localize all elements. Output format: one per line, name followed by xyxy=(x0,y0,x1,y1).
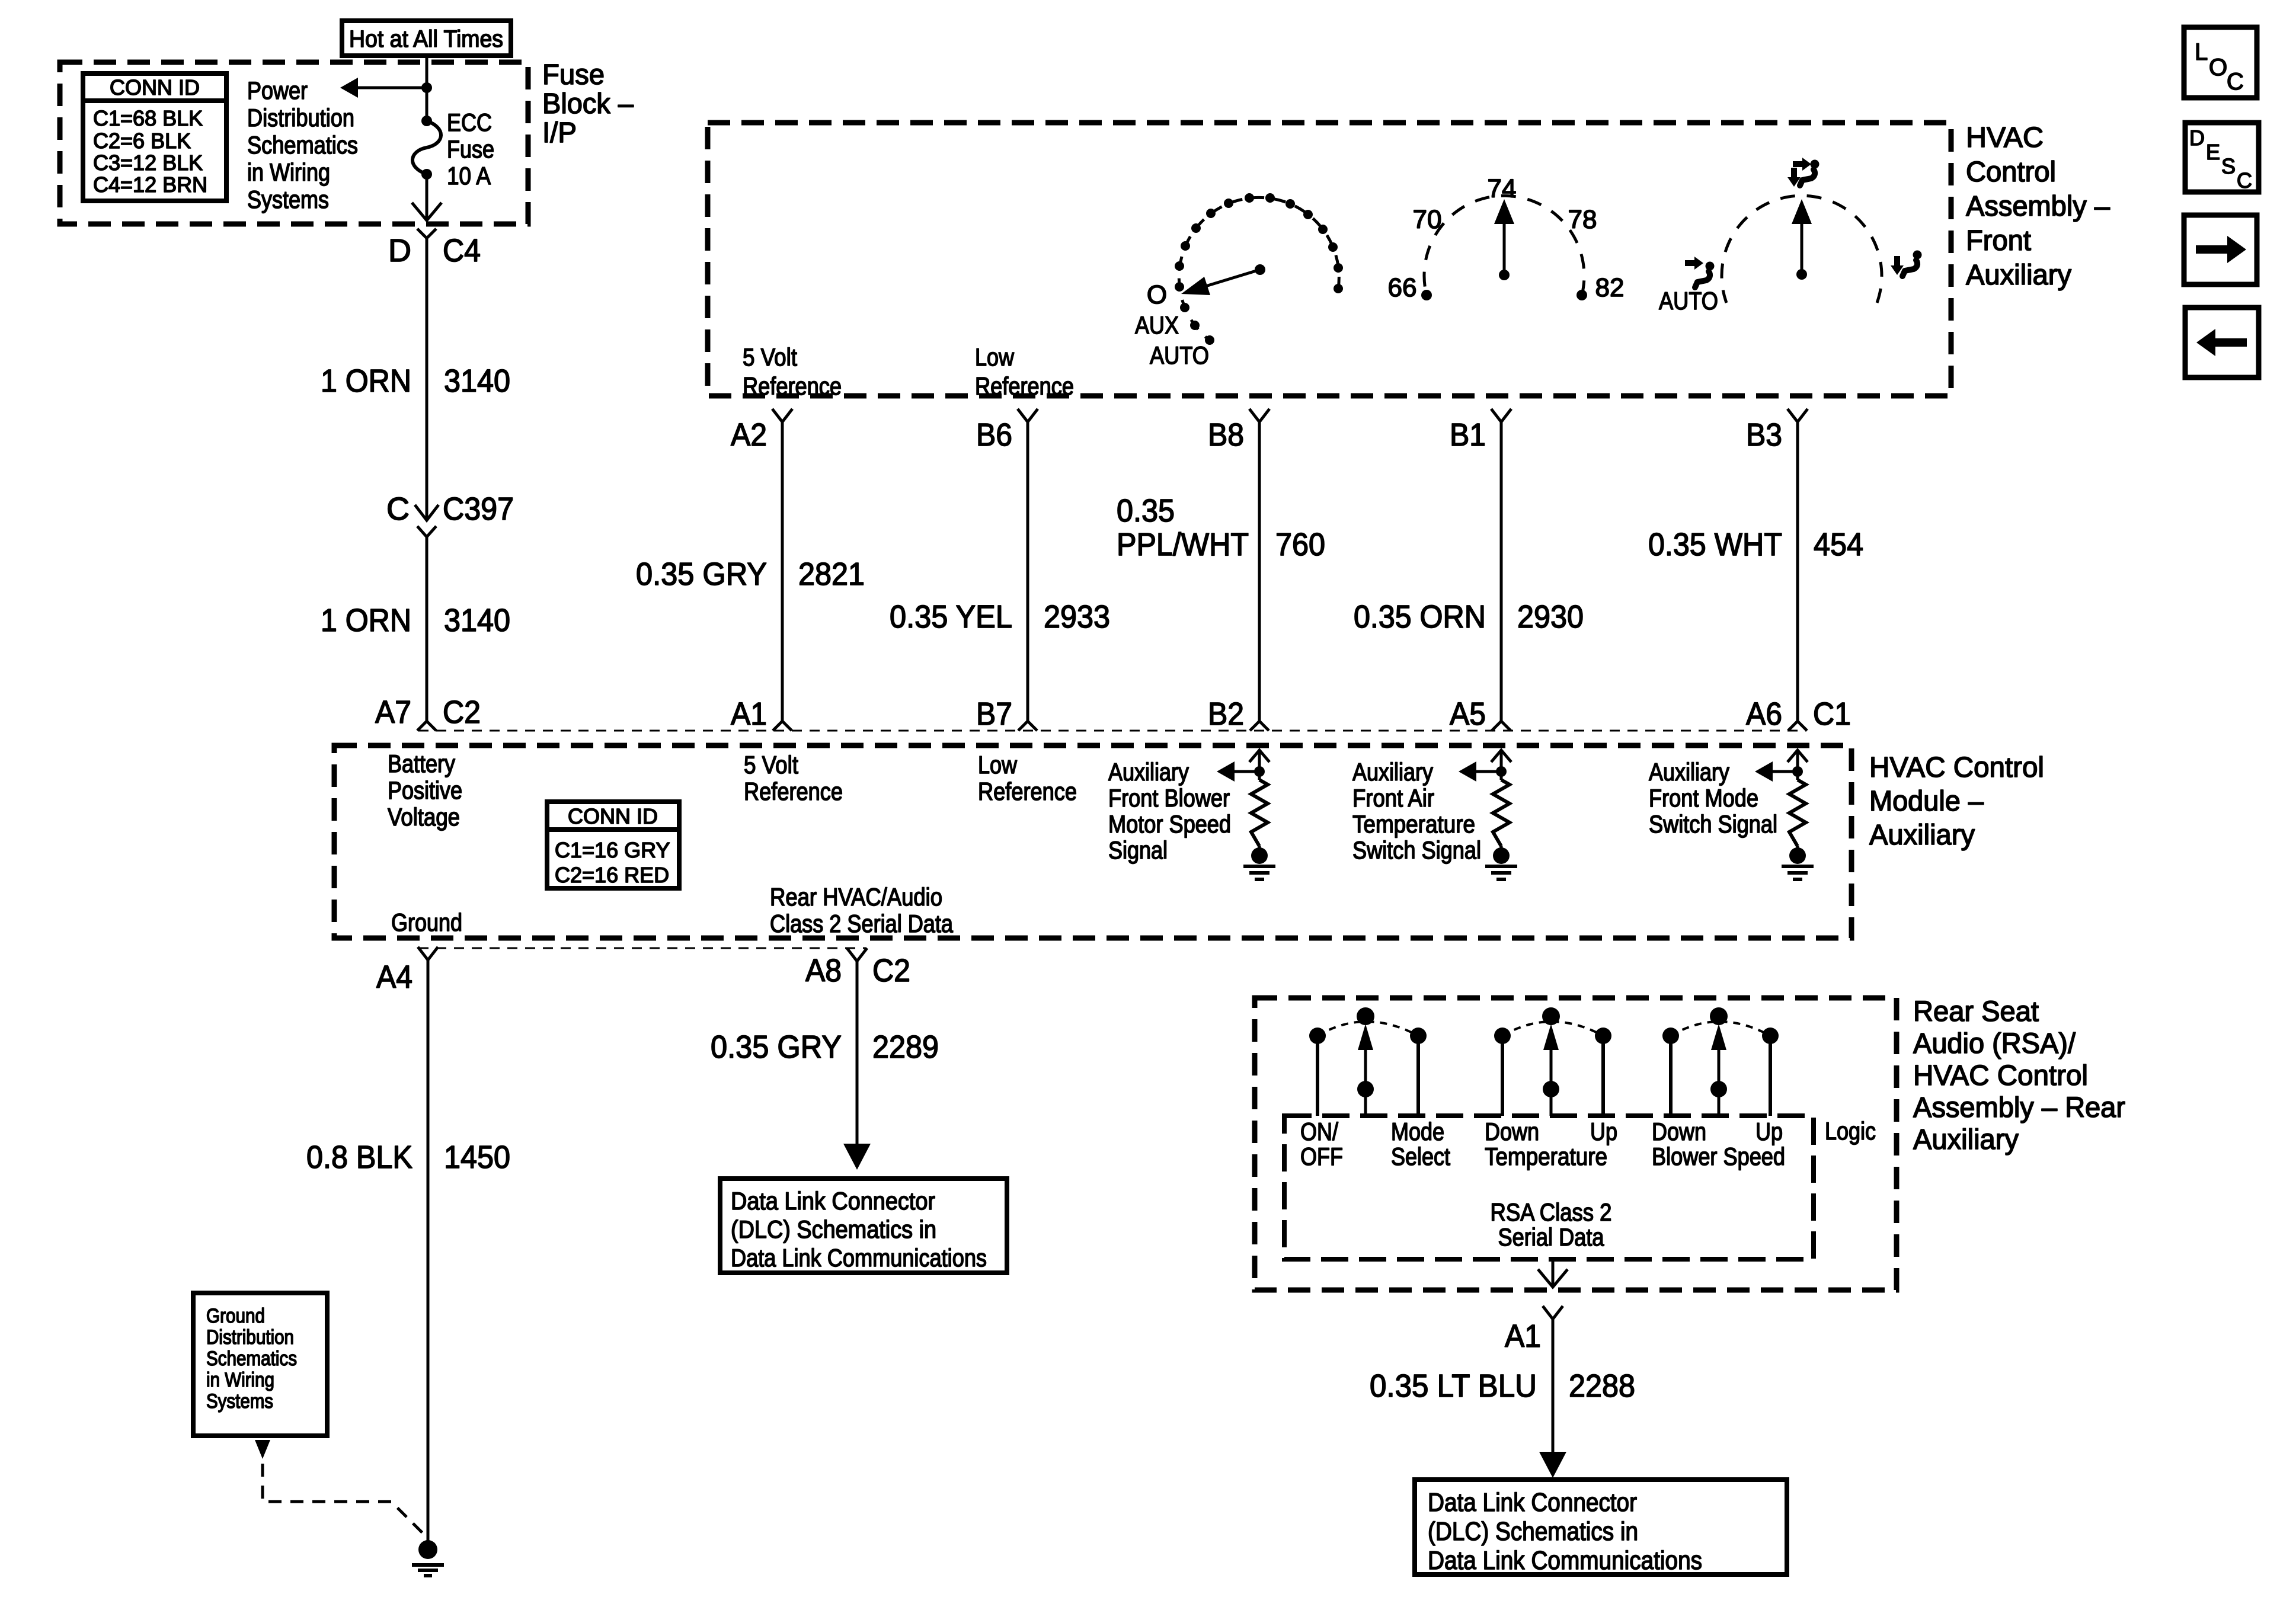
svg-text:Up: Up xyxy=(1590,1118,1617,1145)
svg-text:C4=12 BRN: C4=12 BRN xyxy=(93,172,207,197)
svg-text:Audio (RSA)/: Audio (RSA)/ xyxy=(1913,1028,2076,1060)
icon: mode seat with down airflow (right of dial 3) xyxy=(1891,251,1922,277)
svg-text:Up: Up xyxy=(1755,1118,1783,1145)
thin dashed connector line (A4-A8) xyxy=(418,948,866,949)
label box: Hot at All Times xyxy=(342,21,511,56)
label: Mode Select xyxy=(1391,1118,1450,1170)
label: AUX xyxy=(1135,311,1179,339)
svg-text:0.35 ORN: 0.35 ORN xyxy=(1354,599,1486,635)
svg-text:Voltage: Voltage xyxy=(388,803,460,831)
dial: auxiliary front temperature selector xyxy=(1421,196,1587,300)
svg-text:Schematics: Schematics xyxy=(206,1347,297,1370)
switch: ON/OFF - Mode Select travel arc xyxy=(1318,1022,1418,1036)
svg-text:5 Volt: 5 Volt xyxy=(743,343,797,371)
svg-text:78: 78 xyxy=(1568,205,1597,234)
label: Temperature xyxy=(1485,1142,1607,1170)
svg-text:B3: B3 xyxy=(1746,417,1782,453)
node: resistor to ground (Air) xyxy=(1493,846,1510,864)
label box: Data Link Connector (DLC) 2 xyxy=(1415,1480,1787,1575)
svg-text:Auxiliary: Auxiliary xyxy=(1352,758,1433,786)
label: Auxiliary Front Mode Switch Signal xyxy=(1649,758,1777,838)
svg-text:ECC: ECC xyxy=(447,108,492,136)
arrow: internal logic (Air) xyxy=(1459,761,1501,782)
node: junction (Blower) xyxy=(1254,766,1265,777)
connector pin A6 fork (module) xyxy=(1788,721,1807,731)
svg-text:Motor Speed: Motor Speed xyxy=(1108,810,1231,838)
wire: fuse output xyxy=(426,174,428,220)
ground (internal Mode) xyxy=(1782,866,1814,879)
svg-text:B1: B1 xyxy=(1450,417,1486,453)
label: 5 Volt Reference (module) xyxy=(744,751,843,805)
svg-text:Ground: Ground xyxy=(391,908,462,936)
label: AUTO (dial 1) xyxy=(1150,341,1209,369)
label: Ground (module) xyxy=(391,908,462,936)
svg-text:C1=68 BLK: C1=68 BLK xyxy=(93,106,203,130)
pin label C1 (module right) xyxy=(1813,696,1851,732)
svg-text:Reference: Reference xyxy=(743,372,842,400)
svg-text:Reference: Reference xyxy=(978,777,1077,805)
svg-text:Positive: Positive xyxy=(388,776,462,804)
svg-text:B2: B2 xyxy=(1208,696,1244,732)
node: junction (Air) xyxy=(1496,766,1507,777)
wire: 0.8 BLK 1450 to ground xyxy=(427,960,430,1541)
label: Logic xyxy=(1825,1117,1876,1145)
svg-text:Switch Signal: Switch Signal xyxy=(1352,836,1481,864)
svg-text:2933: 2933 xyxy=(1044,599,1110,635)
svg-text:E: E xyxy=(2206,140,2220,164)
svg-text:Class 2 Serial Data: Class 2 Serial Data xyxy=(770,910,954,937)
svg-text:PPL/WHT: PPL/WHT xyxy=(1117,527,1249,562)
svg-text:A1: A1 xyxy=(731,696,767,732)
connector pin B2 fork (module) xyxy=(1250,721,1269,731)
svg-text:Auxiliary: Auxiliary xyxy=(1108,758,1189,786)
svg-text:C1: C1 xyxy=(1813,696,1851,732)
connector A1: out-arrow xyxy=(1538,1269,1568,1287)
connector pin A1 fork (module) xyxy=(773,721,792,731)
pointer: ground distribution reference xyxy=(255,1440,270,1459)
svg-text:C4: C4 xyxy=(443,233,481,268)
label: Down (blower) xyxy=(1652,1118,1706,1145)
svg-text:Reference: Reference xyxy=(744,777,843,805)
wire label: 0.35 ORN 2930 xyxy=(1354,599,1584,635)
label: 1 ORN 3140 (lower) xyxy=(321,603,510,638)
svg-text:A1: A1 xyxy=(1505,1318,1541,1354)
arrow into DLC reference box 1 xyxy=(843,1144,871,1170)
connector C397 pin C xyxy=(415,505,439,537)
label: 1 ORN 3140 xyxy=(321,363,510,399)
svg-text:3140: 3140 xyxy=(444,603,510,638)
svg-text:5 Volt: 5 Volt xyxy=(744,751,798,779)
svg-text:CONN ID: CONN ID xyxy=(568,804,658,828)
arrow: to Power Distribution Schematics xyxy=(340,78,427,98)
pin label A1 xyxy=(1505,1318,1541,1354)
svg-text:2289: 2289 xyxy=(872,1029,939,1065)
HVAC control module dashed box xyxy=(334,745,1851,938)
svg-text:Auxiliary: Auxiliary xyxy=(1913,1124,2019,1156)
label: Battery Positive Voltage xyxy=(388,750,462,831)
label: ON/ OFF xyxy=(1300,1118,1343,1170)
label: Auxiliary Front Air Temperature Switch Signal xyxy=(1352,758,1481,864)
arrow: internal logic (Blower) xyxy=(1217,761,1259,782)
svg-text:Power: Power xyxy=(247,76,308,104)
svg-text:454: 454 xyxy=(1814,527,1863,562)
svg-text:C397: C397 xyxy=(443,491,514,527)
svg-text:3140: 3140 xyxy=(444,363,510,399)
svg-text:Low: Low xyxy=(975,343,1015,371)
svg-text:Data Link Communications: Data Link Communications xyxy=(1428,1546,1702,1575)
svg-text:Select: Select xyxy=(1391,1142,1450,1170)
svg-text:70: 70 xyxy=(1413,205,1442,234)
svg-text:CONN ID: CONN ID xyxy=(110,75,200,100)
svg-text:74: 74 xyxy=(1488,174,1517,203)
svg-text:Auxiliary: Auxiliary xyxy=(1869,820,1975,851)
svg-text:C2=6 BLK: C2=6 BLK xyxy=(93,129,191,153)
svg-text:Module –: Module – xyxy=(1869,786,1984,817)
wire: 0.35 GRY 2289 to DLC xyxy=(856,961,859,1145)
switch: Blower Speed Down/Up right contact xyxy=(1762,1028,1779,1116)
resistor: pull (Blower) xyxy=(1251,780,1268,846)
svg-text:B7: B7 xyxy=(976,696,1012,732)
pin label A1 xyxy=(731,696,767,732)
svg-text:S: S xyxy=(2221,154,2236,178)
text: Power Distribution Schematics in Wiring Systems xyxy=(247,76,358,213)
svg-text:Hot at All Times: Hot at All Times xyxy=(349,26,503,52)
svg-text:0.8 BLK: 0.8 BLK xyxy=(306,1140,412,1175)
logic box (RSA) xyxy=(1284,1116,1814,1259)
pin label A8 / C2 xyxy=(805,953,910,988)
label: HVAC Control Module - Auxiliary xyxy=(1869,752,2044,851)
dial 3 needle xyxy=(1792,199,1812,280)
svg-text:Temperature: Temperature xyxy=(1485,1142,1607,1170)
svg-text:1450: 1450 xyxy=(444,1140,510,1175)
svg-text:Systems: Systems xyxy=(247,185,329,213)
svg-text:Rear Seat: Rear Seat xyxy=(1913,996,2039,1028)
switch: Temperature Down/Up left contact xyxy=(1494,1028,1511,1116)
thin dashed connector line (module top) xyxy=(418,730,1806,732)
ground (internal Blower) xyxy=(1243,866,1275,879)
svg-text:HVAC: HVAC xyxy=(1966,122,2044,153)
node: splice to power distribution xyxy=(421,82,432,93)
dial 1 needle xyxy=(1181,264,1265,295)
pin label B2 xyxy=(1208,696,1244,732)
label: Down (temperature) xyxy=(1485,1118,1539,1145)
svg-text:0.35 LT BLU: 0.35 LT BLU xyxy=(1370,1368,1537,1404)
svg-text:1 ORN: 1 ORN xyxy=(321,603,411,638)
pin label B6 xyxy=(976,417,1012,453)
svg-text:Down: Down xyxy=(1652,1118,1706,1145)
svg-text:OFF: OFF xyxy=(1300,1142,1343,1170)
svg-text:I/P: I/P xyxy=(542,117,577,149)
ground (internal Air) xyxy=(1485,866,1517,879)
ground G: chassis ground xyxy=(412,1540,444,1576)
svg-text:2288: 2288 xyxy=(1569,1368,1635,1404)
svg-text:Ground: Ground xyxy=(206,1305,265,1327)
switch: Temperature Down/Up travel arc xyxy=(1502,1022,1603,1036)
svg-text:Control: Control xyxy=(1966,156,2056,188)
icon: auto mode seat (left of dial 3) xyxy=(1685,257,1715,287)
connector pin A5 fork (module) xyxy=(1492,721,1511,731)
signal input arrow (Blower) xyxy=(1249,750,1269,780)
svg-text:Schematics: Schematics xyxy=(247,131,358,159)
wire: 1 ORN 3140 (lower) xyxy=(426,537,428,722)
pin label C / C397 xyxy=(386,491,514,527)
svg-text:D: D xyxy=(388,233,411,268)
label: Rear Seat Audio (RSA)/HVAC Control Assembly - Rear Auxiliary xyxy=(1913,996,2125,1156)
wire label: 0.35 YEL 2933 xyxy=(890,599,1110,635)
label: Low Reference (assembly) xyxy=(975,343,1074,400)
label: 0.8 BLK 1450 xyxy=(306,1140,510,1175)
pin label A7 / C2 xyxy=(375,694,481,730)
svg-text:C1=16 GRY: C1=16 GRY xyxy=(555,838,670,862)
text: ECC Fuse 10 A xyxy=(447,108,494,190)
dial 2 needle xyxy=(1494,199,1514,280)
connector pin A2 fork (assembly) xyxy=(772,409,792,422)
svg-text:Assembly –: Assembly – xyxy=(1966,191,2110,222)
svg-text:760: 760 xyxy=(1275,527,1325,562)
svg-text:A2: A2 xyxy=(731,417,767,453)
fuse block I/P dashed box xyxy=(60,62,528,224)
svg-text:10 A: 10 A xyxy=(447,162,491,190)
svg-text:(DLC) Schematics in: (DLC) Schematics in xyxy=(1428,1517,1638,1546)
svg-text:AUX: AUX xyxy=(1135,311,1179,339)
svg-text:Auxiliary: Auxiliary xyxy=(1649,758,1729,786)
svg-text:Reference: Reference xyxy=(975,372,1074,400)
svg-text:1 ORN: 1 ORN xyxy=(321,363,411,399)
arrow: internal logic (Mode) xyxy=(1755,761,1798,782)
wire B8 to B2 xyxy=(1258,422,1261,722)
node: resistor to ground (Blower) xyxy=(1251,846,1268,864)
connector pin B8 fork (assembly) xyxy=(1249,409,1269,422)
label: 0.35 LT BLU 2288 xyxy=(1370,1368,1635,1404)
resistor: pull (Air) xyxy=(1493,780,1510,846)
svg-text:Rear HVAC/Audio: Rear HVAC/Audio xyxy=(770,883,942,911)
svg-text:Mode: Mode xyxy=(1391,1118,1444,1145)
svg-text:Assembly – Rear: Assembly – Rear xyxy=(1913,1092,2125,1124)
node: resistor to ground (Mode) xyxy=(1789,846,1806,864)
switch: Blower Speed Down/Up travel arc xyxy=(1671,1022,1770,1036)
svg-text:C2: C2 xyxy=(443,694,481,730)
svg-text:A4: A4 xyxy=(376,959,412,995)
svg-text:AUTO: AUTO xyxy=(1150,341,1209,369)
svg-text:2930: 2930 xyxy=(1517,599,1584,635)
dial: auxiliary front mode selector xyxy=(1722,196,1882,303)
svg-text:O: O xyxy=(1147,280,1167,309)
switch: ON/OFF - Mode Select left contact xyxy=(1309,1028,1326,1116)
wire label: 0.35 WHT 454 xyxy=(1648,527,1863,562)
svg-text:Serial Data: Serial Data xyxy=(1498,1223,1605,1251)
label: Low Reference (module) xyxy=(978,751,1077,805)
svg-text:A6: A6 xyxy=(1746,696,1782,732)
signal input arrow (Air) xyxy=(1491,750,1511,780)
svg-text:Down: Down xyxy=(1485,1118,1539,1145)
wire: RSA serial data output xyxy=(1552,1259,1555,1287)
svg-text:Front: Front xyxy=(1966,225,2031,257)
fuse ECC 10 A xyxy=(412,116,441,180)
label: Auxiliary Front Blower Motor Speed Signal xyxy=(1108,758,1231,864)
svg-text:0.35 WHT: 0.35 WHT xyxy=(1648,527,1782,562)
wire: battery feed from Hot at All Times xyxy=(426,56,428,121)
svg-text:Front Blower: Front Blower xyxy=(1108,784,1230,812)
dial: auxiliary front blower speed selector xyxy=(1175,193,1343,345)
svg-text:Distribution: Distribution xyxy=(247,104,354,132)
svg-text:in Wiring: in Wiring xyxy=(206,1369,274,1391)
connector pin A1 fork xyxy=(1543,1306,1563,1319)
svg-text:Front Air: Front Air xyxy=(1352,784,1434,812)
svg-text:C2=16 RED: C2=16 RED xyxy=(555,863,669,887)
pin label A4 xyxy=(376,959,412,995)
pin label D / C4 xyxy=(388,233,481,268)
svg-text:Low: Low xyxy=(978,751,1018,779)
connector pin B1 fork (assembly) xyxy=(1491,409,1511,422)
pin label B1 xyxy=(1450,417,1486,453)
connector pin B6 fork (assembly) xyxy=(1018,409,1038,422)
pin label A2 xyxy=(731,417,767,453)
signal input arrow (Mode) xyxy=(1787,750,1808,780)
svg-text:Fuse: Fuse xyxy=(542,59,605,91)
switch: Temperature Down/Up right contact xyxy=(1595,1028,1611,1116)
svg-text:2821: 2821 xyxy=(798,556,865,592)
svg-text:B6: B6 xyxy=(976,417,1012,453)
node: junction (Mode) xyxy=(1792,766,1803,777)
svg-text:C: C xyxy=(2227,69,2244,95)
svg-text:HVAC Control: HVAC Control xyxy=(1913,1060,2088,1092)
svg-text:0.35: 0.35 xyxy=(1117,493,1175,529)
connector C2 pin A7 fork xyxy=(417,721,436,731)
svg-text:B8: B8 xyxy=(1208,417,1244,453)
svg-text:A8: A8 xyxy=(805,953,842,988)
pin label B8 xyxy=(1208,417,1244,453)
connector pin A4 fork xyxy=(418,947,438,960)
label: O (off position) xyxy=(1147,280,1167,309)
connector ID table (module) xyxy=(547,802,679,888)
dashed reference wire to ground point xyxy=(263,1464,426,1536)
nav box: prev arrow xyxy=(2185,308,2259,377)
svg-text:Data Link Connector: Data Link Connector xyxy=(731,1187,935,1215)
label: HVAC Control Assembly - Front Auxiliary xyxy=(1966,122,2110,291)
svg-text:Blower Speed: Blower Speed xyxy=(1652,1142,1785,1170)
wire label: 0.35 PPL/WHT 760 xyxy=(1117,493,1325,562)
svg-text:in Wiring: in Wiring xyxy=(247,158,330,186)
svg-text:0.35 GRY: 0.35 GRY xyxy=(636,556,767,592)
pin label A5 xyxy=(1450,696,1486,732)
wire: 1 ORN 3140 (upper) xyxy=(426,238,428,520)
connector pin B3 fork (assembly) xyxy=(1787,409,1808,422)
svg-text:A5: A5 xyxy=(1450,696,1486,732)
svg-text:0.35 GRY: 0.35 GRY xyxy=(711,1029,842,1065)
svg-text:0.35 YEL: 0.35 YEL xyxy=(890,599,1012,635)
switch: Temperature Down/Up wiper arrow xyxy=(1542,1007,1560,1116)
wire A2 to A1 xyxy=(781,422,784,722)
label: 5 Volt Reference (assembly) xyxy=(743,343,842,400)
svg-text:66: 66 xyxy=(1388,273,1417,302)
labels: temperature numbers xyxy=(1388,174,1625,302)
connector pin B7 fork (module) xyxy=(1018,721,1037,731)
label: AUTO (dial 3) xyxy=(1659,287,1718,315)
svg-text:Logic: Logic xyxy=(1825,1117,1876,1145)
svg-text:Fuse: Fuse xyxy=(447,135,494,163)
svg-text:D: D xyxy=(2189,126,2205,150)
wire: 0.35 LT BLU 2288 xyxy=(1552,1319,1555,1453)
label box: Ground Distribution Schematics in Wiring Systems xyxy=(193,1293,327,1436)
label: 0.35 GRY 2289 xyxy=(711,1029,939,1065)
arrow into DLC reference box 2 xyxy=(1539,1452,1566,1478)
connector C4 pin D fork xyxy=(417,229,436,238)
svg-text:Distribution: Distribution xyxy=(206,1326,294,1349)
svg-text:C3=12 BLK: C3=12 BLK xyxy=(93,151,203,175)
switch: ON/OFF - Mode Select wiper arrow xyxy=(1357,1007,1374,1116)
label box: Data Link Connector (DLC) 1 xyxy=(720,1179,1007,1273)
switch: ON/OFF - Mode Select right contact xyxy=(1410,1028,1427,1116)
label: Rear HVAC/Audio Class 2 Serial Data xyxy=(770,883,954,937)
svg-text:RSA Class 2: RSA Class 2 xyxy=(1491,1198,1612,1226)
icon: mode seat with down+right airflow (top of dial 3) xyxy=(1787,158,1819,187)
svg-text:Auxiliary: Auxiliary xyxy=(1966,260,2071,291)
nav box: DESC xyxy=(2185,123,2259,193)
svg-text:HVAC Control: HVAC Control xyxy=(1869,752,2044,783)
nav box: LOC xyxy=(2184,27,2257,98)
svg-text:L: L xyxy=(2195,39,2208,65)
pin label B3 xyxy=(1746,417,1782,453)
label: Up (blower) xyxy=(1755,1118,1783,1145)
svg-text:AUTO: AUTO xyxy=(1659,287,1718,315)
svg-text:(DLC) Schematics in: (DLC) Schematics in xyxy=(731,1215,936,1243)
svg-text:O: O xyxy=(2209,55,2227,81)
svg-text:Temperature: Temperature xyxy=(1352,810,1475,838)
svg-text:Systems: Systems xyxy=(206,1390,273,1413)
svg-text:Signal: Signal xyxy=(1108,836,1168,864)
rear seat audio RSA dashed box xyxy=(1255,998,1897,1290)
svg-text:Switch Signal: Switch Signal xyxy=(1649,810,1777,838)
svg-text:Data Link Communications: Data Link Communications xyxy=(731,1244,987,1272)
svg-text:C2: C2 xyxy=(872,953,910,988)
svg-text:ON/: ON/ xyxy=(1300,1118,1338,1145)
svg-text:Front Mode: Front Mode xyxy=(1649,784,1758,812)
connector ID table (fuse block) xyxy=(83,73,226,201)
switch: Blower Speed Down/Up wiper arrow xyxy=(1710,1007,1728,1116)
svg-text:Block –: Block – xyxy=(542,88,634,120)
label: RSA Class 2 Serial Data xyxy=(1491,1198,1612,1251)
svg-text:Data Link Connector: Data Link Connector xyxy=(1428,1488,1637,1517)
pin label B7 xyxy=(976,696,1012,732)
svg-text:Battery: Battery xyxy=(388,750,455,777)
connector C4: out-arrow xyxy=(412,203,442,220)
nav box: next arrow xyxy=(2184,215,2257,284)
switch: Blower Speed Down/Up left contact xyxy=(1662,1028,1679,1116)
wire B3 to A6 xyxy=(1796,422,1799,722)
label: Up (temperature) xyxy=(1590,1118,1617,1145)
svg-text:A7: A7 xyxy=(375,694,411,730)
connector pin A8 fork xyxy=(847,948,867,961)
wire label: 0.35 GRY 2821 xyxy=(636,556,865,592)
label: Fuse Block - I/P xyxy=(542,59,634,149)
wire B1 to A5 xyxy=(1500,422,1503,722)
svg-text:C: C xyxy=(2237,168,2252,193)
resistor: pull (Mode) xyxy=(1789,780,1806,846)
wire B6 to B7 xyxy=(1027,422,1029,722)
label: Blower Speed xyxy=(1652,1142,1785,1170)
HVAC control assembly dashed box xyxy=(708,123,1951,396)
svg-text:82: 82 xyxy=(1595,273,1625,302)
svg-text:C: C xyxy=(386,491,410,527)
pin label A6 xyxy=(1746,696,1782,732)
